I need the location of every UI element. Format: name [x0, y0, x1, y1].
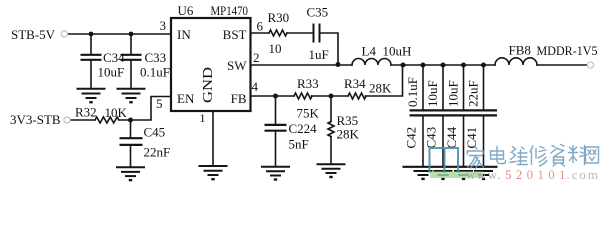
svg-text:www: www	[466, 167, 498, 182]
svg-text:C44: C44	[444, 126, 459, 148]
svg-text:28K: 28K	[337, 127, 360, 142]
svg-text:1: 1	[200, 111, 206, 125]
svg-text:3: 3	[160, 18, 167, 33]
svg-text:GND: GND	[201, 67, 216, 103]
svg-text:28K: 28K	[369, 81, 392, 96]
svg-text:2: 2	[253, 50, 260, 65]
svg-text:4: 4	[252, 79, 259, 94]
svg-text:IN: IN	[177, 27, 191, 42]
svg-text:10: 10	[269, 41, 282, 56]
svg-text:MP1470: MP1470	[211, 3, 249, 18]
svg-text:10uF: 10uF	[98, 65, 125, 80]
svg-text:C33: C33	[145, 50, 167, 65]
svg-text:10K: 10K	[105, 105, 128, 120]
svg-text:R30: R30	[268, 10, 290, 25]
svg-text:10uH: 10uH	[383, 44, 412, 59]
svg-text:6: 6	[257, 19, 264, 34]
svg-text:L4: L4	[362, 44, 377, 59]
svg-text:FB8: FB8	[509, 43, 531, 58]
svg-text:0.1uF: 0.1uF	[405, 77, 420, 107]
svg-text:10uF: 10uF	[425, 80, 440, 107]
svg-text:C35: C35	[307, 5, 329, 20]
svg-text:R32: R32	[75, 105, 97, 120]
svg-text:75K: 75K	[297, 106, 320, 121]
svg-text:22uF: 22uF	[466, 80, 481, 107]
svg-text:10uF: 10uF	[446, 80, 461, 107]
svg-text:0.1uF: 0.1uF	[140, 65, 170, 80]
svg-text:STB-5V: STB-5V	[11, 27, 56, 42]
svg-text:1uF: 1uF	[309, 47, 329, 62]
svg-text:C42: C42	[404, 127, 419, 149]
svg-text:SW: SW	[227, 58, 247, 73]
svg-text:EN: EN	[177, 91, 195, 106]
svg-text:5nF: 5nF	[289, 137, 309, 152]
svg-text:FB: FB	[231, 91, 247, 106]
svg-text:22nF: 22nF	[144, 145, 171, 160]
svg-text:C45: C45	[144, 125, 166, 140]
svg-text:C41: C41	[464, 127, 479, 149]
svg-text:U6: U6	[178, 3, 194, 18]
svg-text:C34: C34	[103, 50, 125, 65]
svg-text:.520101: .520101	[498, 167, 566, 182]
svg-text:C43: C43	[424, 127, 439, 149]
svg-text:R34: R34	[344, 76, 366, 91]
svg-text:MDDR-1V5: MDDR-1V5	[537, 43, 598, 58]
svg-text:R33: R33	[297, 76, 319, 91]
svg-text:BST: BST	[223, 27, 247, 42]
svg-text:.com: .com	[567, 167, 599, 182]
svg-text:C224: C224	[289, 121, 318, 136]
svg-text:3V3-STB: 3V3-STB	[10, 112, 61, 127]
svg-text:5: 5	[156, 96, 163, 111]
